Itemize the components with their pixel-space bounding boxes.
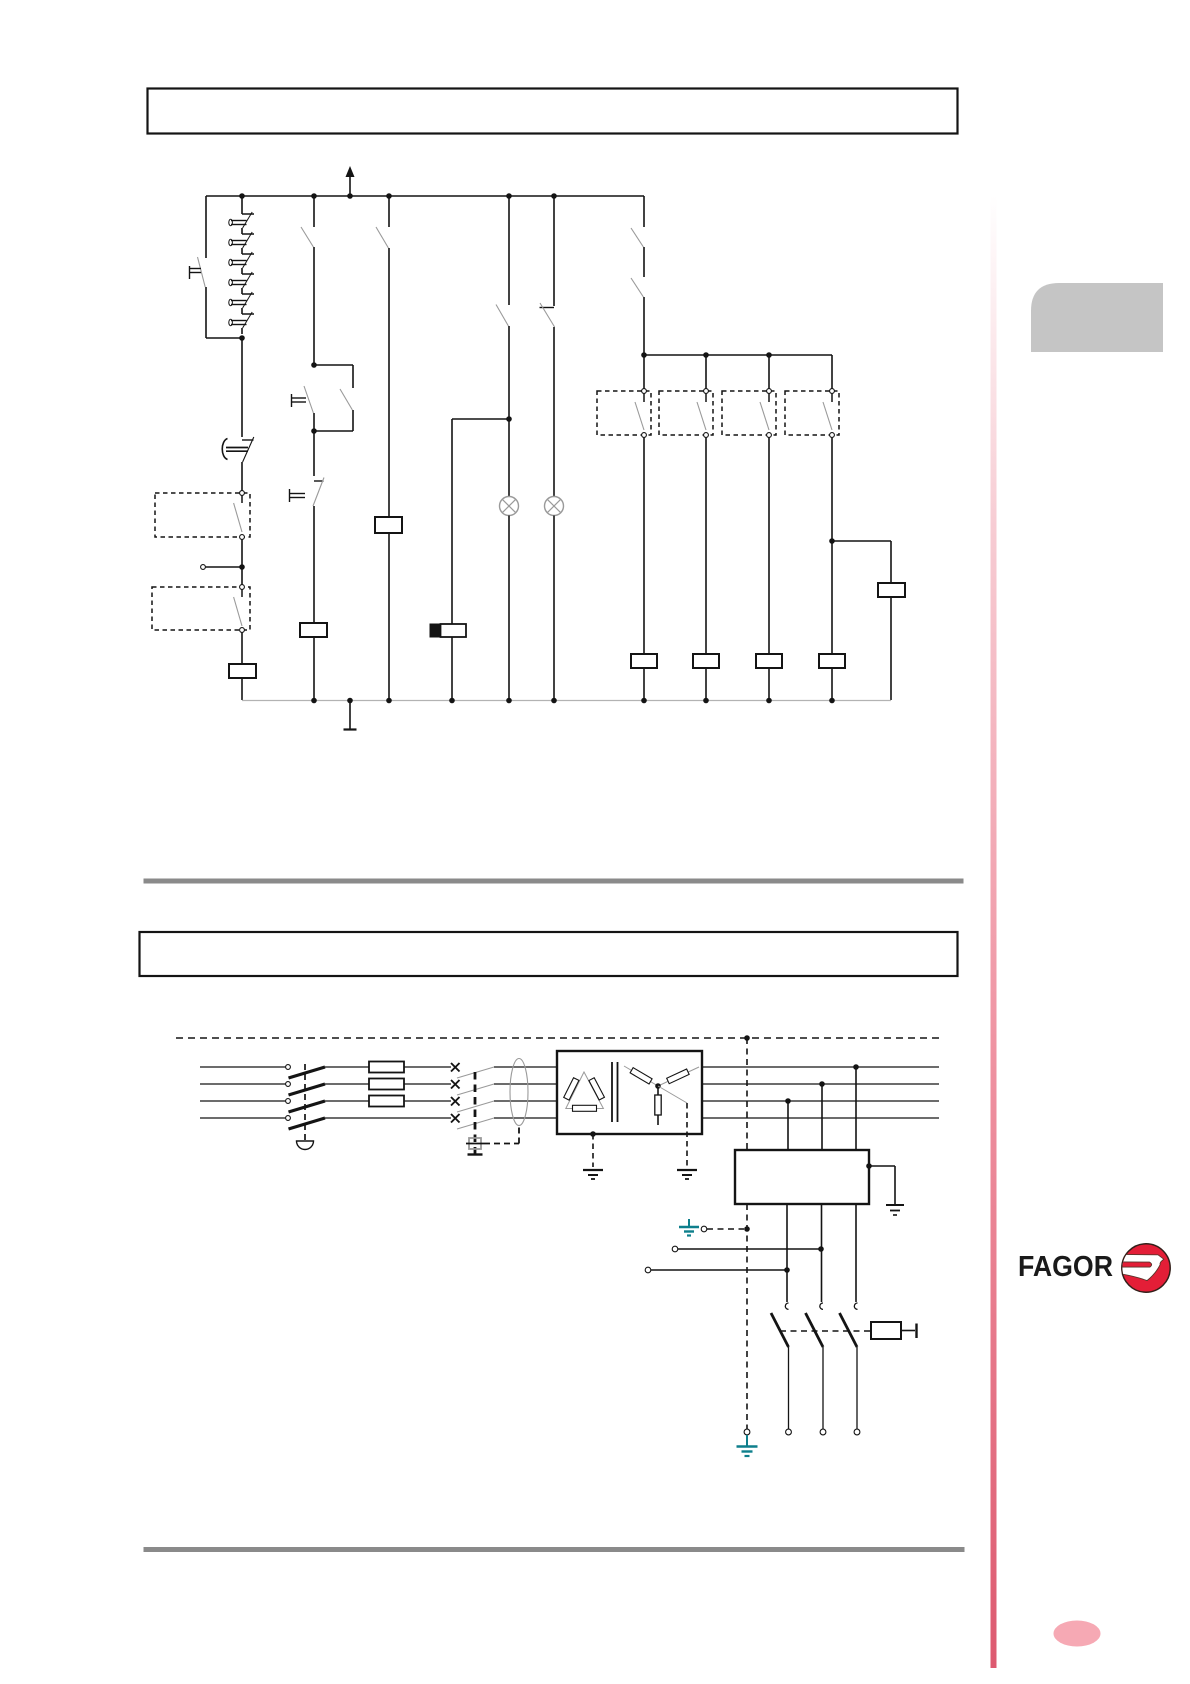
- wire to 0V bus: [553, 516, 555, 701]
- ground drive chassis: [886, 1204, 904, 1206]
- chapter tab (gray): [1031, 283, 1163, 352]
- switch Q1 blade 2: [289, 1084, 326, 1095]
- transformer core: [611, 1062, 613, 1122]
- terminal disconnect Q1 pole 4: [286, 1116, 291, 1121]
- node chassis terminal: [866, 1163, 872, 1169]
- wire shield to ground (dashed): [592, 1134, 594, 1167]
- wire: [508, 326, 510, 419]
- wire: [313, 413, 315, 476]
- terminal PE bottom: [744, 1429, 750, 1435]
- suppressor R1: [878, 583, 905, 597]
- emergency stop button S2: [242, 439, 254, 441]
- wire: [494, 1083, 557, 1085]
- wire: [241, 567, 243, 587]
- relay contact KA2 (dashed enclosure): [152, 587, 250, 630]
- wire drop 4: [831, 355, 833, 391]
- thermal contact F1 (dashed enclosure): [597, 391, 651, 435]
- wire mains N: [200, 1117, 285, 1119]
- wire: [494, 1117, 557, 1119]
- contact K2 NO: [376, 227, 388, 248]
- terminal X mark 3: [451, 1097, 460, 1106]
- node transformer shield: [590, 1131, 596, 1137]
- wire: [404, 1083, 451, 1085]
- terminal X mark 2: [451, 1080, 460, 1089]
- wire bypass branch lower: [205, 287, 207, 338]
- fuse F3: [369, 1096, 404, 1107]
- wire drop 1: [643, 355, 645, 391]
- contactor KM10 linkage (dashed): [780, 1330, 871, 1332]
- thermal contact F2 (dashed enclosure): [659, 391, 713, 435]
- ground transformer neutral: [677, 1169, 697, 1171]
- node PE junction: [744, 1226, 750, 1232]
- wire: [325, 1066, 369, 1068]
- terminal contact seat: [785, 1303, 788, 1309]
- wire: [890, 597, 892, 700]
- spindle drive module: [735, 1150, 869, 1204]
- switch Q1 blade 4: [289, 1118, 326, 1129]
- terminal X mark 1: [451, 1063, 460, 1072]
- contact K5 NO: [631, 228, 643, 247]
- wire transformer output: [702, 1066, 939, 1068]
- wire: [241, 633, 243, 664]
- thermal contact F3 (dashed enclosure): [722, 391, 776, 435]
- contactor coil KM5: [819, 654, 845, 668]
- terminal motor U: [672, 1246, 678, 1252]
- switch Q1 blade 1: [289, 1067, 326, 1078]
- limit switch B6: [242, 313, 254, 315]
- title box (upper): [148, 89, 958, 134]
- wire: [831, 438, 833, 654]
- node motor U: [818, 1246, 824, 1252]
- contactor KM10 blade 3: [840, 1313, 858, 1347]
- wire: [494, 1100, 557, 1102]
- thermal contact F4 (dashed enclosure): [785, 391, 839, 435]
- indicator lamp H2: [545, 497, 564, 516]
- wire to 0V bus: [705, 668, 707, 700]
- wire branch to counter: [452, 418, 509, 420]
- wire: [325, 1100, 369, 1102]
- wire to 0V bus: [643, 668, 645, 700]
- wire linkage to toroid (dashed): [484, 1143, 519, 1145]
- contactor KM10 blade 2: [806, 1313, 824, 1347]
- wire motor leads: [788, 1347, 790, 1429]
- contact K1 seal-in NO: [340, 389, 352, 410]
- ground transformer shield: [583, 1169, 603, 1171]
- wire: [313, 247, 315, 365]
- wire to 0V bus: [388, 533, 390, 700]
- relay coil KA3: [229, 664, 256, 678]
- wire to 0V bus: [313, 637, 315, 700]
- wire: [508, 419, 510, 497]
- wire transformer output: [702, 1117, 939, 1119]
- wire right feeder: [643, 196, 645, 227]
- contactor coil KM2: [631, 654, 657, 668]
- wire mains L2: [200, 1083, 285, 1085]
- wire tap L1: [855, 1067, 857, 1150]
- wire PE link (dashed): [707, 1228, 744, 1230]
- terminal disconnect Q1 pole 2: [286, 1082, 291, 1087]
- contactor KM10 blade 1: [771, 1313, 789, 1347]
- contactor coil KM3: [693, 654, 719, 668]
- switch S1 manual bypass: [198, 257, 206, 287]
- node tap L2: [819, 1081, 825, 1087]
- svg-text:FAGOR: FAGOR: [1018, 1251, 1113, 1283]
- node external terminal X1: [201, 565, 206, 570]
- wye neutral tap (dashed): [658, 1086, 687, 1103]
- wire chassis to ground: [869, 1165, 895, 1167]
- wire mains L1: [200, 1066, 285, 1068]
- wire seal-in branch: [314, 364, 353, 366]
- wire drive output: [821, 1204, 823, 1302]
- switch Q1 linkage (dashed): [304, 1064, 306, 1140]
- wire: [768, 438, 770, 654]
- contactor KM10 coil: [871, 1322, 901, 1339]
- terminal disconnect Q1 pole 3: [286, 1099, 291, 1104]
- relay coil KA4: [375, 517, 402, 533]
- wire mains L3: [200, 1100, 285, 1102]
- wire suppressor branch: [832, 540, 891, 542]
- terminal PE: [701, 1226, 707, 1232]
- limit switch B4: [242, 273, 254, 275]
- ground PE terminal (teal): [688, 1219, 690, 1226]
- node boundary junction: [744, 1035, 750, 1041]
- limit switch B5: [242, 293, 254, 295]
- wire transformer output: [702, 1083, 939, 1085]
- separator rule upper: [144, 879, 964, 884]
- contactor coil KM4: [756, 654, 782, 668]
- node bus junctions: [239, 193, 245, 199]
- wire: [643, 297, 645, 355]
- wire to emergency stop: [241, 338, 243, 437]
- contact K1 NO: [301, 227, 313, 247]
- wire PE conductor (dashed): [746, 1038, 748, 1150]
- wire to 0V bus: [508, 516, 510, 701]
- wire 0V return bus: [242, 700, 891, 702]
- wire to 0V bus: [831, 668, 833, 700]
- wire: [643, 247, 645, 277]
- fuse F2: [369, 1079, 404, 1090]
- relay contact KA1 (dashed enclosure): [155, 493, 250, 537]
- isolation transformer T1: [557, 1051, 702, 1134]
- wire: [553, 327, 555, 497]
- wire: [325, 1083, 369, 1085]
- wire to 0V bus: [768, 668, 770, 700]
- node seal-in bottom: [311, 428, 317, 434]
- hour counter P1: [430, 624, 441, 637]
- wire: [404, 1066, 451, 1068]
- wire seal-in bottom: [352, 410, 354, 431]
- wire: [325, 1117, 451, 1119]
- toroid ferrite ring: [510, 1059, 528, 1126]
- wire drive output: [786, 1204, 788, 1302]
- wire drive output: [855, 1204, 857, 1302]
- transformer secondary wye winding: [624, 1066, 658, 1086]
- node chain bottom: [239, 335, 245, 341]
- fuse F1: [369, 1062, 404, 1073]
- node 0V junctions: [311, 698, 317, 704]
- pushbutton S3 start NO: [304, 386, 313, 413]
- wire column K1: [313, 196, 315, 227]
- footer ellipse (pink): [1054, 1621, 1101, 1647]
- contactor KM coil square: [469, 1138, 481, 1149]
- logo emblem wing: [1118, 1254, 1164, 1280]
- wire bypass branch left: [205, 196, 207, 258]
- terminal disconnect Q1 pole 1: [286, 1065, 291, 1070]
- node sub-bus junctions: [641, 352, 647, 358]
- node motor V: [784, 1267, 790, 1273]
- terminal motor 2: [820, 1429, 826, 1435]
- pushbutton S4 stop NC: [314, 480, 324, 482]
- wire: [241, 540, 243, 567]
- wire top supply bus: [206, 195, 644, 197]
- overtravel limit switch chain B1-B6: [241, 196, 243, 214]
- wire column lamp H1: [508, 196, 510, 305]
- terminal motor 3: [854, 1429, 860, 1435]
- arrow supply up: [349, 175, 351, 196]
- contactor KM blade 2: [457, 1084, 494, 1095]
- limit switch B3: [242, 253, 254, 255]
- contact K3 NO: [496, 305, 508, 327]
- wire motor U: [678, 1248, 821, 1250]
- limit switch B1: [242, 213, 254, 215]
- wire motor V: [651, 1269, 787, 1271]
- title box (lower): [140, 932, 958, 976]
- ground 0V reference: [349, 700, 351, 729]
- wire: [705, 438, 707, 654]
- transformer primary delta winding: [566, 1072, 604, 1109]
- indicator lamp H1: [500, 497, 519, 516]
- wire drop 3: [768, 355, 770, 391]
- wire to 0V bus: [451, 637, 453, 700]
- contact K6 NO: [631, 278, 643, 297]
- limit switch B2: [242, 233, 254, 235]
- node tap L3: [785, 1098, 791, 1104]
- wire drop 2: [705, 355, 707, 391]
- wire column K2: [388, 196, 390, 227]
- separator rule lower: [144, 1547, 965, 1552]
- wire tap L3: [787, 1101, 789, 1150]
- wire tap L2: [821, 1084, 823, 1150]
- wire transformer output: [702, 1100, 939, 1102]
- contactor KM armature bar: [468, 1153, 483, 1155]
- wire coil feed: [901, 1330, 915, 1332]
- terminal contact seat: [820, 1303, 823, 1309]
- node branch to suppressor: [829, 538, 835, 544]
- terminal motor 1: [786, 1429, 792, 1435]
- wire: [404, 1100, 451, 1102]
- wire: [643, 438, 645, 654]
- wire: [494, 1066, 557, 1068]
- contactor KM linkage (dashed bold): [474, 1072, 477, 1154]
- wire sub-bus: [644, 354, 832, 356]
- switch Q1 operator handle: [297, 1141, 314, 1150]
- terminal X mark 4: [451, 1114, 460, 1123]
- wire column lamp H2: [553, 196, 555, 306]
- ground machine PE (teal): [746, 1435, 748, 1446]
- terminal motor V: [645, 1267, 651, 1273]
- node seal-in top: [311, 362, 317, 368]
- contactor coil KM1: [300, 623, 327, 637]
- node branch: [506, 416, 512, 422]
- contactor KM blade 1: [457, 1067, 494, 1078]
- terminal contact seat: [854, 1303, 857, 1309]
- switch Q1 blade 3: [289, 1101, 326, 1112]
- wire estop to relay contact: [241, 462, 243, 493]
- wire: [313, 506, 315, 623]
- contact K4 NC: [540, 307, 555, 309]
- wire to 0V bus: [241, 678, 243, 700]
- cabinet boundary (dashed): [176, 1037, 943, 1039]
- node tap L1: [853, 1064, 859, 1070]
- wire: [388, 248, 390, 517]
- contactor KM blade 3: [457, 1101, 494, 1112]
- contactor KM blade 4: [457, 1118, 494, 1129]
